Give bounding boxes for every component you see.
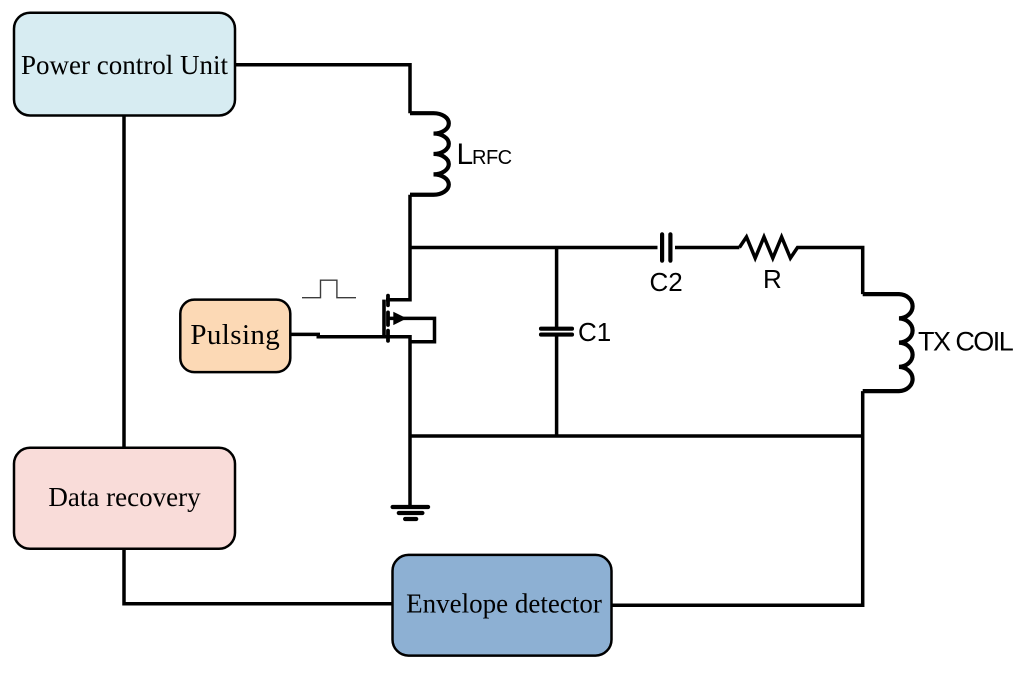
svg-text:Pulsing: Pulsing [190,319,280,351]
wire: Power control Unit output to LRFC top [235,65,410,113]
wire: R to TX coil top [804,248,863,295]
inductor TX COIL [863,294,913,391]
wire: LRFC bottom to MOSFET drain (through top-rail junction) [386,195,410,300]
wire: Data recovery to Envelope detector input [124,549,393,604]
inductor LRFC [410,113,449,195]
transistor Q1 gate bar [382,300,386,339]
svg-text:RFC: RFC [472,147,512,169]
box: Power control Unit [14,13,235,116]
svg-text:Data recovery: Data recovery [48,482,201,512]
capacitor C1 [541,329,572,335]
transistor Q1 channel segments [386,296,390,341]
wire: top rail junction down to C1 top plate [555,248,559,329]
svg-text:TX COIL: TX COIL [918,327,1014,357]
svg-text:R: R [763,264,782,294]
wire: Power control Unit to Data recovery [122,116,126,449]
box: Envelope detector [393,555,612,656]
resistor R [739,237,804,258]
wire: TX coil bottom down right side (through bottom-rail junction) to Envelope detector output [612,391,863,605]
transistor Q1 body terminal wire [388,318,435,341]
box: Data recovery [14,448,235,549]
svg-text:C1: C1 [578,317,611,347]
wire: C2 right plate to resistor R [675,246,739,250]
label LRFC [457,138,512,171]
capacitor C2 [662,234,670,260]
wire: C1 bottom plate to bottom rail [555,335,559,437]
wire: gate lead and source down to ground [317,337,411,505]
wire: bottom rail from source node to TX coil return [410,434,863,438]
svg-text:Power control Unit: Power control Unit [21,50,228,80]
svg-text:C2: C2 [650,267,683,297]
ground [393,507,429,519]
wire: top rail from drain node to C2 left plate [410,246,658,250]
svg-text:L: L [457,138,474,171]
svg-text:Envelope detector: Envelope detector [406,588,602,618]
wire: Pulsing box output [289,333,321,337]
pulse waveform glyph [302,280,356,298]
transistor Q1 body arrow [393,312,407,325]
box: Pulsing [180,300,290,373]
